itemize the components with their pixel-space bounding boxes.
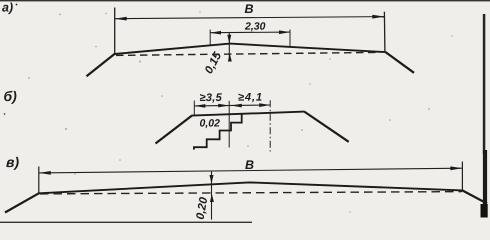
right slope (fig v) <box>462 190 487 203</box>
left edge speck <box>4 113 6 115</box>
arrow up to dashed line (0,20) <box>210 194 214 202</box>
label 0,20 (rotated) <box>196 197 209 220</box>
label >=4,1 <box>238 93 261 102</box>
dashed reference line (fig a) <box>116 52 378 55</box>
extension line right of 2,30 <box>289 30 291 47</box>
scan right edge line <box>483 14 486 154</box>
dimension line B (fig v) <box>39 168 463 173</box>
label B (fig v) <box>245 160 253 169</box>
road axis dash-dot line (fig b) <box>269 100 271 151</box>
extension line left (fig b) <box>193 101 195 116</box>
right embankment slope (fig a) <box>385 52 414 73</box>
vertical dimension line 0,15 <box>228 33 230 62</box>
arrow left of >=3,5 <box>194 104 205 108</box>
dimension line 2,30 <box>210 31 290 34</box>
paper noise specks <box>28 11 453 212</box>
left slope (fig b) <box>156 115 193 143</box>
label B (fig a) <box>245 4 253 13</box>
arrow left of B (fig a) <box>115 17 127 21</box>
extension line middle (fig b) <box>228 101 230 148</box>
arrow right of >=3,5 (at axis) <box>218 104 229 108</box>
label b) <box>4 91 16 104</box>
arrow down to crown (0,15) <box>227 35 231 44</box>
label a) <box>2 2 13 14</box>
scan bottom-right blob <box>481 204 488 218</box>
right slope (fig b) <box>304 112 348 142</box>
arrow up to dashed line (0,15) <box>228 54 232 62</box>
label v) <box>6 157 18 170</box>
left slope (fig v) <box>5 193 39 212</box>
label >=3,5 <box>200 93 222 102</box>
scan top border <box>0 0 490 1</box>
dot after label a) <box>16 4 18 6</box>
extension line left (fig v) <box>38 167 40 194</box>
extension line right of B (fig a) <box>383 12 386 52</box>
stepped cut line 0,02 (fig b) <box>194 114 242 150</box>
road surface (fig b) <box>192 112 305 116</box>
road surface (fig a) <box>115 44 386 54</box>
arrow down to crown (0,20) <box>210 175 214 184</box>
arrow left of B (fig v) <box>39 171 51 175</box>
left embankment slope (fig a) <box>87 54 115 76</box>
arrow right of B (fig v) <box>450 166 462 170</box>
scan bottom-left edge line <box>0 222 252 224</box>
extension line left of B (fig a) <box>114 8 116 55</box>
arrow right of >=4,1 <box>259 103 270 107</box>
vertical dimension line 0,20 <box>211 171 213 219</box>
arrow left of 2,30 <box>210 31 221 35</box>
arrow left of >=4,1 (at axis) <box>231 104 242 108</box>
label 0,15 (rotated) <box>204 51 223 75</box>
extension line right (fig v) <box>461 162 463 191</box>
label 2,30 <box>245 22 265 31</box>
arrow right of B (fig a) <box>372 15 384 19</box>
road surface (fig v) <box>39 182 463 193</box>
label 0,02 <box>200 119 220 128</box>
extension line left of 2,30 <box>209 30 211 45</box>
dashed reference line (fig v) <box>40 192 462 194</box>
dimension line >=3,5 / >=4,1 (fig b) <box>194 104 270 107</box>
dimension line B (fig a) <box>115 17 385 19</box>
scan right edge band lower <box>483 150 487 212</box>
arrow right of 2,30 <box>279 30 290 34</box>
